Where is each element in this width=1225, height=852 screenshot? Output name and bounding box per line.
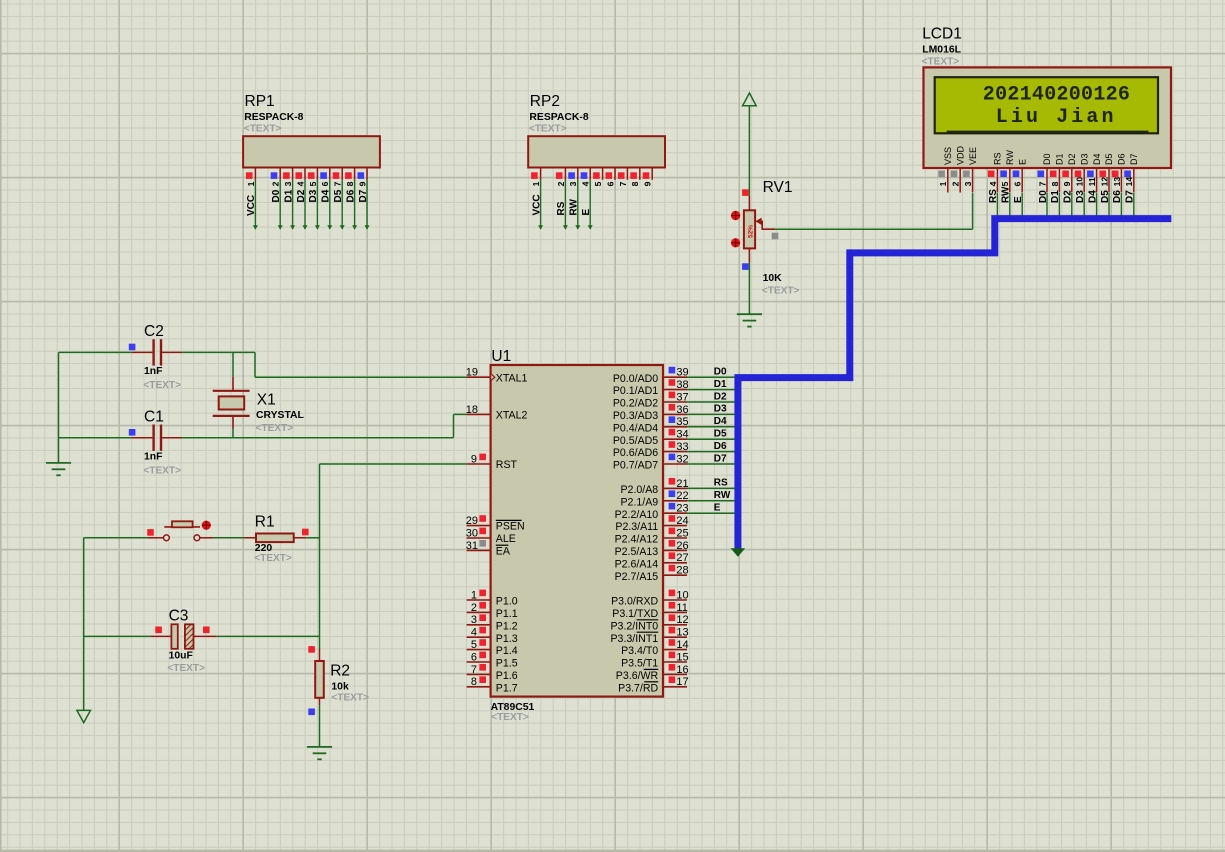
svg-text:RP1: RP1 (245, 93, 275, 110)
svg-text:D5: D5 (333, 189, 344, 202)
U1 pin name RST (496, 459, 518, 471)
svg-text:19: 19 (466, 367, 478, 379)
svg-text:U1: U1 (491, 348, 511, 365)
svg-text:RS: RS (993, 152, 1003, 165)
wires from LCD control/data pins to bus (997, 193, 1133, 216)
svg-text:1: 1 (1093, 84, 1105, 107)
svg-text:<TEXT>: <TEXT> (244, 124, 282, 135)
resistor R1 (244, 534, 307, 543)
svg-text:23: 23 (676, 503, 688, 515)
svg-text:i: i (1071, 106, 1083, 129)
C3 left state square (155, 627, 162, 634)
svg-text:VCC: VCC (531, 194, 542, 215)
property <TEXT> (C3) (167, 663, 205, 674)
svg-text:7: 7 (471, 664, 477, 676)
svg-text:D2: D2 (296, 189, 307, 202)
U1 pin name XTAL2 (496, 410, 528, 422)
wire C2 right to XTAL1 (182, 352, 466, 377)
label U1 (491, 348, 511, 365)
ground (left rail) (46, 463, 71, 475)
label R1 (255, 513, 275, 530)
svg-text:13: 13 (676, 627, 688, 639)
RV1 percent text (748, 225, 755, 238)
svg-text:P2.0/A8: P2.0/A8 (620, 484, 658, 496)
svg-text:2: 2 (556, 181, 566, 186)
svg-text:<TEXT>: <TEXT> (143, 380, 181, 391)
svg-text:P3.2/INT0: P3.2/INT0 (610, 620, 658, 632)
property <TEXT> (LCD1) (922, 57, 960, 68)
capacitor C3 (electrolytic) (151, 624, 217, 649)
svg-text:12: 12 (1099, 177, 1109, 187)
bus end arrow (731, 548, 746, 557)
LCD screen (935, 77, 1158, 133)
U1 pin name ALE (496, 533, 516, 545)
U1 pin number 29 (466, 515, 478, 527)
svg-text:P3.0/RXD: P3.0/RXD (611, 596, 658, 608)
C2 state square (129, 344, 136, 351)
svg-text:33: 33 (676, 441, 688, 453)
svg-text:12: 12 (676, 614, 688, 626)
svg-text:7: 7 (333, 181, 343, 186)
svg-text:11: 11 (1087, 177, 1097, 186)
svg-text:1nF: 1nF (144, 451, 162, 462)
capacitor C2 (131, 339, 182, 365)
U1 pin 9 RST stub (467, 454, 491, 464)
svg-text:D5: D5 (714, 429, 727, 440)
svg-text:P0.4/AD4: P0.4/AD4 (613, 422, 658, 434)
U1 pin number 31 (466, 540, 478, 552)
svg-text:13: 13 (1112, 177, 1122, 187)
wire button to R1 (213, 537, 244, 539)
svg-text:17: 17 (676, 676, 688, 688)
RV1 top state square (742, 189, 749, 196)
svg-text:27: 27 (676, 552, 688, 564)
svg-text:RESPACK-8: RESPACK-8 (244, 112, 303, 123)
U1 pins 21-28 stubs (P2) (663, 478, 687, 575)
svg-text:31: 31 (466, 540, 478, 552)
svg-text:2: 2 (1056, 84, 1068, 107)
U1 pin 19 XTAL1 stub (467, 374, 495, 381)
svg-text:D0: D0 (271, 189, 282, 202)
svg-text:P1.2: P1.2 (496, 620, 518, 632)
wires U1 P0.0-P0.7 to bus (687, 377, 735, 464)
wire RV1 bottom to ground (748, 263, 750, 314)
svg-text:P3.5/T1: P3.5/T1 (621, 658, 658, 670)
value 10uF (C3) (169, 651, 193, 662)
label RP1 (245, 93, 275, 110)
svg-text:E: E (1017, 159, 1027, 165)
svg-text:P3.3/INT1: P3.3/INT1 (610, 633, 658, 645)
wire C1 right to XTAL2 (182, 414, 466, 437)
svg-text:7: 7 (618, 181, 628, 186)
resistor pack RP2 (528, 136, 665, 230)
svg-text:1nF: 1nF (144, 366, 162, 377)
svg-text:VSS: VSS (943, 147, 953, 165)
LCD text row1 202140200126 (983, 84, 1130, 107)
svg-text:E: E (714, 503, 721, 514)
svg-text:1: 1 (246, 181, 256, 186)
svg-text:0: 0 (995, 84, 1007, 107)
wire left vertical to arrow (83, 538, 85, 711)
property <TEXT> (R2) (331, 692, 369, 703)
U1 pin name XTAL1 (496, 372, 528, 384)
wire divider vertical (319, 464, 321, 636)
label R2 (330, 663, 350, 680)
C3 right state square (203, 627, 210, 634)
potentiometer RV1 body (744, 196, 755, 263)
wire RST to divider node (320, 463, 467, 465)
svg-text:P0.6/AD6: P0.6/AD6 (613, 447, 658, 459)
svg-text:RW: RW (1005, 150, 1015, 165)
svg-text:16: 16 (676, 664, 688, 676)
RV1 adjust button up (731, 211, 740, 220)
svg-text:25: 25 (676, 527, 688, 539)
wires U1 P2.0-P2.2 to bus (687, 488, 735, 513)
svg-text:LCD1: LCD1 (922, 26, 962, 43)
svg-text:P1.3: P1.3 (496, 633, 518, 645)
capacitor C1 (131, 425, 182, 451)
svg-text:P1.6: P1.6 (496, 670, 518, 682)
svg-text:14: 14 (676, 639, 688, 651)
svg-text:C3: C3 (169, 608, 189, 625)
pushbutton state square (147, 529, 154, 536)
U1 pins 29 30 31 stubs (467, 515, 491, 550)
svg-text:2: 2 (1007, 84, 1019, 107)
label C3 (169, 608, 189, 625)
U1 pins 39-32 stubs (P0) (663, 367, 687, 464)
wire C2 left to ground rail (59, 351, 132, 353)
label RP2 (530, 93, 560, 110)
svg-text:35: 35 (676, 416, 688, 428)
svg-text:P2.1/A9: P2.1/A9 (620, 496, 658, 508)
R2 top state square (308, 646, 315, 653)
svg-text:D0: D0 (714, 367, 727, 378)
svg-text:<TEXT>: <TEXT> (331, 692, 369, 703)
svg-text:8: 8 (630, 181, 640, 186)
svg-text:4: 4 (581, 181, 591, 186)
wire ground rail vertical (58, 352, 60, 463)
property <TEXT> (C2) (143, 380, 181, 391)
svg-text:RP2: RP2 (530, 93, 560, 110)
svg-text:5: 5 (471, 639, 477, 651)
svg-text:1: 1 (938, 181, 948, 186)
svg-text:D3: D3 (1079, 153, 1089, 165)
net labels RS RW E (U1 side) (714, 478, 731, 514)
C1 state square (129, 429, 136, 436)
svg-text:5: 5 (308, 181, 318, 186)
net labels D0-D7 (U1 side) (714, 367, 727, 465)
svg-text:P0.3/AD3: P0.3/AD3 (613, 410, 658, 422)
svg-text:0: 0 (1044, 84, 1056, 107)
svg-text:14: 14 (1124, 177, 1134, 187)
resistor R2 (315, 636, 324, 705)
U1 pin name PSEN (496, 520, 525, 532)
U1 pin numbers 21-28 and names P2.0-P2.7 (615, 478, 689, 583)
svg-text:8: 8 (471, 676, 477, 688)
svg-text:38: 38 (676, 379, 688, 391)
svg-text:D7: D7 (358, 189, 369, 202)
svg-text:0: 0 (1081, 84, 1093, 107)
svg-text:4: 4 (471, 627, 477, 639)
svg-text:RS: RS (556, 201, 567, 215)
svg-text:P3.4/T0: P3.4/T0 (621, 645, 658, 657)
pushbutton (reset) (148, 521, 213, 540)
label C2 (144, 323, 164, 340)
ground (below RV1) (737, 314, 762, 326)
svg-text:18: 18 (466, 404, 478, 416)
U1 pin 18 XTAL2 stub (467, 413, 491, 415)
wire C3 to divider node (217, 635, 320, 637)
svg-text:1: 1 (1020, 84, 1032, 107)
svg-text:LM016L: LM016L (922, 44, 961, 55)
svg-text:D2: D2 (1067, 153, 1077, 165)
label LCD1 (922, 26, 962, 43)
LCD1 pin numbers 1-14 (938, 177, 1134, 187)
svg-text:6: 6 (471, 651, 477, 663)
svg-text:E: E (581, 209, 592, 216)
value 1nF (C2) (144, 366, 162, 377)
svg-text:XTAL1: XTAL1 (496, 372, 528, 384)
svg-text:4: 4 (1032, 84, 1044, 107)
svg-text:1: 1 (471, 589, 477, 601)
label X1 (257, 392, 276, 409)
label C1 (144, 409, 164, 426)
svg-text:RV1: RV1 (763, 179, 793, 196)
svg-text:X1: X1 (257, 392, 276, 409)
crystal X1 (213, 377, 250, 429)
svg-text:3: 3 (568, 181, 578, 186)
svg-text:8: 8 (1050, 181, 1060, 186)
svg-text:u: u (1026, 106, 1038, 129)
svg-text:P2.6/A14: P2.6/A14 (615, 558, 659, 570)
svg-text:5: 5 (1000, 181, 1010, 186)
svg-text:10: 10 (1075, 177, 1085, 187)
wire R2 to ground (319, 705, 321, 747)
svg-text:RS: RS (714, 478, 728, 489)
svg-text:<TEXT>: <TEXT> (256, 423, 294, 434)
U1 pin numbers 10-17 and names P3.0-P3.7 (610, 589, 688, 694)
U1 pin number 19 (466, 367, 478, 379)
svg-text:6: 6 (1118, 84, 1130, 107)
RV1 bottom state square (742, 263, 749, 270)
wire LCD VEE to RV1 wiper (775, 193, 973, 229)
svg-text:D4: D4 (714, 416, 727, 427)
svg-text:D3: D3 (714, 404, 727, 415)
label RV1 (763, 179, 793, 196)
svg-text:8: 8 (345, 181, 355, 186)
svg-text:<TEXT>: <TEXT> (254, 553, 292, 564)
svg-text:RESPACK-8: RESPACK-8 (529, 112, 588, 123)
svg-text:D1: D1 (1055, 153, 1065, 165)
svg-text:L: L (996, 106, 1008, 129)
svg-text:39: 39 (676, 367, 688, 379)
svg-text:P2.5/A13: P2.5/A13 (615, 546, 659, 558)
net labels RS RW E D0-D7 at LCD pins (988, 186, 1135, 203)
svg-text:2: 2 (471, 602, 477, 614)
svg-text:P2.4/A12: P2.4/A12 (615, 534, 659, 546)
value RESPACK-8 (RP1) (244, 112, 303, 123)
svg-text:2: 2 (983, 84, 995, 107)
svg-text:D6: D6 (714, 441, 727, 452)
svg-text:3: 3 (471, 614, 477, 626)
value LM016L (922, 44, 961, 55)
LCD text row2 Liu Jian (996, 106, 1114, 129)
svg-text:D6: D6 (345, 189, 356, 202)
svg-text:D6: D6 (1117, 153, 1127, 165)
svg-text:10K: 10K (763, 273, 783, 284)
svg-text:28: 28 (676, 565, 688, 577)
svg-text:21: 21 (676, 478, 688, 490)
svg-text:R2: R2 (330, 663, 350, 680)
svg-text:<TEXT>: <TEXT> (762, 285, 800, 296)
svg-text:36: 36 (676, 404, 688, 416)
bus D0-D7/RS/RW/E (thick blue) (738, 219, 1171, 550)
wire R1 to divider node (306, 537, 319, 539)
svg-text:P1.4: P1.4 (496, 645, 518, 657)
svg-text:<TEXT>: <TEXT> (491, 712, 529, 723)
svg-text:D2: D2 (714, 391, 727, 402)
svg-text:a: a (1086, 106, 1098, 129)
svg-text:J: J (1056, 106, 1068, 129)
wire X1 bottom junction (232, 429, 234, 438)
property <TEXT> (RV1) (762, 285, 800, 296)
svg-text:n: n (1102, 106, 1114, 129)
svg-text:D4: D4 (1092, 153, 1102, 165)
svg-text:3: 3 (283, 181, 293, 186)
ground arrow (bottom left) (77, 710, 91, 722)
RV1 wiper (755, 218, 775, 230)
svg-text:37: 37 (676, 391, 688, 403)
svg-text:VEE: VEE (968, 147, 978, 165)
svg-text:D3: D3 (308, 189, 319, 202)
svg-text:P1.5: P1.5 (496, 658, 518, 670)
svg-text:P1.1: P1.1 (496, 608, 518, 620)
svg-text:D1: D1 (283, 189, 294, 202)
svg-text:RW: RW (569, 198, 580, 215)
wire C1 left to ground rail (59, 437, 132, 439)
svg-text:C1: C1 (144, 409, 164, 426)
svg-text:9: 9 (643, 181, 653, 186)
svg-text:D7: D7 (714, 453, 727, 464)
R2 bottom state square (308, 709, 315, 716)
svg-text:<TEXT>: <TEXT> (922, 57, 960, 68)
svg-text:9: 9 (357, 181, 367, 186)
svg-text:D7: D7 (1129, 153, 1139, 165)
svg-text:<TEXT>: <TEXT> (167, 663, 205, 674)
svg-text:VDD: VDD (955, 145, 965, 165)
svg-text:10: 10 (676, 589, 688, 601)
property <TEXT> (RP2) (529, 124, 567, 135)
svg-text:RW: RW (714, 490, 731, 501)
svg-text:P0.0/AD0: P0.0/AD0 (613, 373, 658, 385)
wire X1 top junction (232, 352, 234, 377)
svg-text:22: 22 (676, 490, 688, 502)
svg-text:PSEN: PSEN (496, 521, 525, 533)
R1 right state square (302, 529, 309, 536)
resistor pack RP1 (243, 136, 380, 230)
RV1 wiper state square (772, 233, 779, 240)
svg-text:P3.1/TXD: P3.1/TXD (612, 608, 658, 620)
U1 pin number 9 (471, 453, 477, 465)
pushbutton actuator dot (202, 521, 211, 530)
svg-text:P3.7/RD: P3.7/RD (618, 682, 658, 694)
svg-text:R1: R1 (255, 513, 275, 530)
svg-text:XTAL2: XTAL2 (496, 410, 528, 422)
svg-text:2: 2 (951, 181, 961, 186)
svg-text:<TEXT>: <TEXT> (143, 465, 181, 476)
svg-text:5: 5 (593, 181, 603, 186)
svg-text:0: 0 (1069, 84, 1081, 107)
svg-text:P3.6/WR: P3.6/WR (616, 670, 659, 682)
svg-text:P0.1/AD1: P0.1/AD1 (613, 385, 658, 397)
svg-text:RST: RST (496, 459, 518, 471)
U1 pins 10-17 stubs (P3) (663, 590, 687, 687)
LCD cursor underline (947, 131, 1149, 133)
property <TEXT> (RP1) (244, 124, 282, 135)
U1 pins 1-8 stubs (467, 590, 491, 687)
svg-text:P0.7/AD7: P0.7/AD7 (613, 460, 658, 472)
svg-text:P1.7: P1.7 (496, 682, 518, 694)
svg-text:ALE: ALE (496, 533, 516, 545)
svg-text:C2: C2 (144, 323, 164, 340)
svg-text:30: 30 (466, 527, 478, 539)
svg-text:2: 2 (271, 181, 281, 186)
svg-text:6: 6 (1013, 181, 1023, 186)
svg-text:P0.5/AD5: P0.5/AD5 (613, 435, 658, 447)
value 10k (R2) (331, 681, 349, 692)
svg-text:VCC: VCC (246, 195, 257, 216)
svg-text:2: 2 (1106, 84, 1118, 107)
LCD1 pin stubs and state squares (938, 168, 1134, 193)
svg-text:29: 29 (466, 515, 478, 527)
U1 pin number 30 (466, 527, 478, 539)
U1 pin name EA (496, 545, 511, 557)
value RESPACK-8 (RP2) (529, 112, 588, 123)
value CRYSTAL (256, 410, 305, 421)
svg-text:D1: D1 (714, 379, 727, 390)
LCD1 pin names VSS VDD VEE RS RW E D0-D7 (943, 145, 1139, 165)
LCD LM016L body LCD1 (924, 67, 1172, 168)
svg-text:9: 9 (471, 453, 477, 465)
svg-text:9: 9 (1062, 181, 1072, 186)
value 10K (RV1) (763, 273, 783, 284)
wire button row left (84, 537, 148, 539)
svg-text:P2.3/A11: P2.3/A11 (615, 521, 658, 533)
svg-text:P2.7/A15: P2.7/A15 (615, 571, 659, 583)
svg-text:i: i (1011, 106, 1023, 129)
svg-text:24: 24 (676, 515, 688, 527)
RV1 adjust button down (731, 238, 740, 247)
U1 pin numbers 1-8 and names P1.0-P1.7 (471, 589, 518, 694)
value AT89C51 (491, 702, 535, 713)
svg-text:3: 3 (963, 181, 973, 186)
svg-text:6: 6 (605, 181, 615, 186)
svg-text:P0.2/AD2: P0.2/AD2 (613, 398, 658, 410)
U1 pin number 18 (466, 404, 478, 416)
svg-text:7: 7 (1037, 181, 1047, 186)
svg-text:10k: 10k (331, 681, 349, 692)
svg-text:52%: 52% (748, 225, 755, 238)
wire C3 row left (84, 635, 151, 637)
U1 pin numbers 39-32 and names P0.0-P0.7 (613, 367, 689, 472)
svg-text:26: 26 (676, 540, 688, 552)
svg-text:D4: D4 (321, 189, 332, 202)
power arrow (RV1 top) (743, 93, 757, 196)
svg-text:<TEXT>: <TEXT> (529, 124, 567, 135)
svg-text:P1.0: P1.0 (496, 596, 518, 608)
svg-text:34: 34 (676, 429, 688, 441)
svg-text:P2.2/A10: P2.2/A10 (615, 509, 659, 521)
